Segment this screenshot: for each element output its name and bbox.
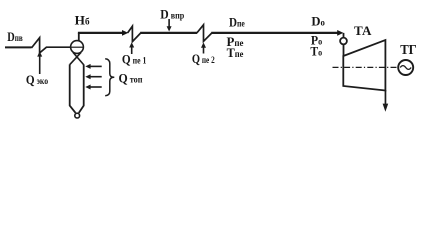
burner circle <box>75 113 80 118</box>
Qпе1 arrow <box>129 42 134 54</box>
wire steam riser from drum top <box>78 33 80 41</box>
fuel arrow 3 <box>85 85 101 90</box>
superheater-2 break symbol <box>197 25 212 42</box>
drum (circle with water-level chord) <box>71 41 84 54</box>
furnace vessel walls <box>70 64 76 113</box>
downcomer cross under drum <box>73 52 84 64</box>
generator sine symbol <box>400 66 411 70</box>
Dвпр spray arrow <box>167 19 172 32</box>
turbine ТА trapezoid <box>343 40 385 91</box>
wire feed-water line <box>5 46 32 48</box>
shaft centerline (dash-dot) <box>333 66 399 68</box>
generator circle <box>398 60 413 75</box>
wire valve to turbine <box>343 44 345 56</box>
stop valve circle <box>340 38 347 45</box>
svg-text:ТГ: ТГ <box>400 43 417 58</box>
flow arrowhead at turbine inlet corner <box>337 30 343 36</box>
economizer break symbol <box>32 38 71 53</box>
flow arrowhead on steam line <box>122 30 128 36</box>
fuel arrow 1 <box>85 64 101 69</box>
brace <box>105 59 114 96</box>
exhaust arrow <box>383 90 389 112</box>
svg-text:ТА: ТА <box>354 23 372 38</box>
wire inlet drop to stop valve <box>343 33 345 38</box>
Qпе2 arrow <box>201 42 206 53</box>
superheater-1 break symbol <box>128 26 141 41</box>
fuel arrow 2 <box>85 74 101 79</box>
Qэко arrow <box>37 51 42 74</box>
